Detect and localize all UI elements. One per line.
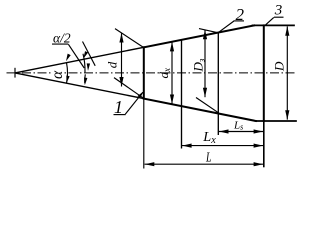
dimension line D3 with arrows <box>204 30 206 97</box>
wire large-end extension line down (for L, Lx, Ls) <box>263 121 265 167</box>
dimension line Ls with arrows <box>219 131 263 133</box>
dimension arc alpha/2 lower with arrow <box>84 74 87 83</box>
leader callout 3 <box>266 17 274 25</box>
label angle alpha (rotated, on white gap) <box>53 70 64 79</box>
leader alpha/2 (right) <box>83 42 96 66</box>
svg-text:Dз: Dз <box>191 58 207 72</box>
svg-text:Ls: Ls <box>233 119 243 131</box>
wire top generatrix (thin, apex to small end) <box>15 47 144 73</box>
dimension line d with arrows <box>121 33 123 86</box>
dimension line L with arrows <box>145 163 264 165</box>
dimension line d_x with arrows <box>171 42 173 105</box>
svg-text:Lx: Lx <box>202 130 216 146</box>
extension line oblique for D3 (bottom) <box>196 98 219 113</box>
wire large end face 3 (right, thick) <box>263 25 265 121</box>
wire bottom base plane extension line <box>256 120 297 122</box>
wire frustum bottom generatrix (thick) <box>144 99 256 121</box>
leader callout 1 with arrow <box>125 92 143 114</box>
svg-text:d: d <box>105 61 120 68</box>
leader callout 2 <box>219 21 234 32</box>
wire top base plane extension line <box>253 24 295 26</box>
dimension arc angle alpha <box>67 63 68 83</box>
extension line oblique for D3 (top) <box>199 29 218 33</box>
svg-text:α/2: α/2 <box>53 31 71 46</box>
wire frustum top generatrix (thick) <box>144 25 254 47</box>
wire small-end extension line down (for L) <box>143 99 145 169</box>
wire small end face (left, thick) <box>143 47 145 98</box>
extension line oblique for d (top) <box>115 29 144 48</box>
svg-text:dx: dx <box>156 68 172 79</box>
svg-text:3: 3 <box>274 3 283 19</box>
dimension line D with arrows <box>286 26 288 119</box>
svg-text:1: 1 <box>114 97 123 117</box>
node cross-section plane 2 (for D3) <box>217 33 219 136</box>
leader alpha/2 (left) <box>68 44 84 68</box>
dimension arc alpha/2 upper with arrows <box>83 54 85 73</box>
svg-text:α: α <box>49 70 66 79</box>
extension line oblique for d (bottom) <box>114 78 144 99</box>
svg-text:L: L <box>205 151 211 166</box>
dimension line Lx with arrows <box>182 145 263 147</box>
wire bottom generatrix (thin, apex to small end) <box>15 73 144 99</box>
wire centerline (cone axis, dash-dot) <box>7 72 296 74</box>
node cross-section plane for d_x <box>181 40 183 149</box>
node cone apex tick <box>14 68 16 78</box>
svg-text:D: D <box>272 61 287 72</box>
